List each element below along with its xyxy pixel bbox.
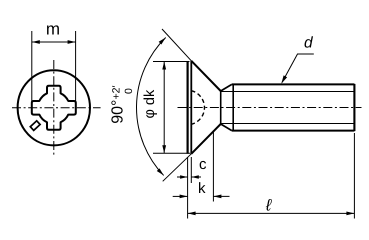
head face line (outer) bbox=[187, 61, 189, 154]
shank major diameter top line bbox=[232, 83, 355, 85]
head outline circle (front view) bbox=[18, 70, 90, 145]
identification diamond mark bbox=[30, 121, 40, 131]
k dimension arrows bbox=[173, 195, 188, 197]
phi dk dimension line with arrows bbox=[163, 62, 165, 154]
shank end line bbox=[353, 84, 355, 131]
thread minor diameter bottom line bbox=[221, 123, 355, 125]
l dimension line with arrows bbox=[188, 212, 355, 214]
countersunk cone edge bottom bbox=[191, 124, 220, 154]
90 degree angle extension line bottom bbox=[163, 154, 192, 182]
thread runout chamfer top bbox=[221, 84, 232, 91]
shank major diameter bottom line bbox=[232, 130, 355, 132]
l dimension extension line right bbox=[353, 133, 355, 219]
dimension m extension lines bbox=[31, 31, 33, 104]
phillips cross recess bbox=[32, 86, 76, 130]
c dimension extension lines bbox=[187, 157, 189, 219]
svg-text:m: m bbox=[46, 20, 60, 39]
svg-text:φ dk: φ dk bbox=[142, 89, 158, 118]
dimension m line with arrows bbox=[32, 41, 76, 43]
svg-text:+2′: +2′ bbox=[111, 86, 123, 100]
hidden recess depth arc (dashed) bbox=[191, 91, 204, 125]
countersunk cone edge top bbox=[191, 61, 220, 91]
cone end vertical line bbox=[220, 91, 222, 124]
phi dk dimension extension lines bbox=[153, 61, 190, 63]
90 degree dimension arc bbox=[137, 37, 166, 175]
leader line for d bbox=[282, 54, 314, 83]
screw axis centerline (side view) bbox=[178, 107, 362, 109]
vertical centerline (front view) bbox=[53, 60, 55, 156]
k dimension extension line bbox=[212, 131, 214, 202]
svg-text:0: 0 bbox=[123, 88, 135, 94]
full thread start vertical line bbox=[232, 84, 234, 130]
angle arc arrowheads bbox=[159, 37, 166, 44]
svg-text:k: k bbox=[198, 180, 206, 197]
thread minor diameter top line bbox=[221, 91, 355, 93]
svg-text:c: c bbox=[199, 156, 207, 173]
90 degree angle extension line top bbox=[162, 29, 191, 61]
svg-text:d: d bbox=[304, 35, 314, 52]
svg-text:90°: 90° bbox=[110, 100, 127, 124]
thread runout chamfer bottom bbox=[221, 124, 232, 131]
horizontal centerline (front view) bbox=[12, 107, 101, 109]
svg-text:ℓ: ℓ bbox=[265, 197, 272, 215]
c dimension arrows bbox=[177, 176, 188, 178]
head face line (inner edge) bbox=[190, 61, 192, 154]
